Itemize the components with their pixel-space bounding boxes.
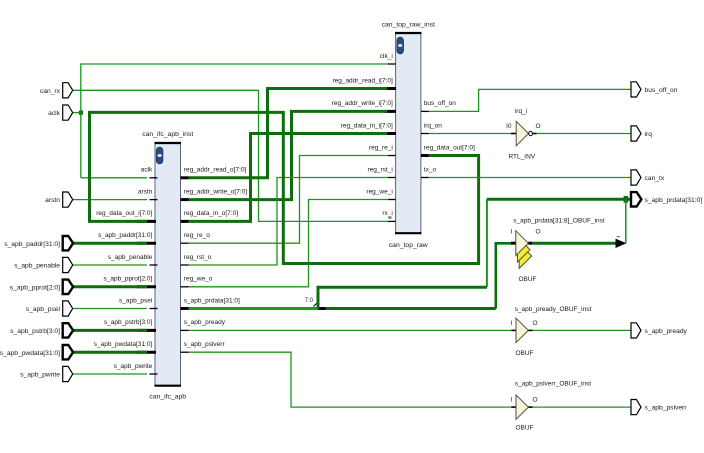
- input port aclk: [48, 105, 73, 120]
- svg-text:s_apb_paddr[31:0]: s_apb_paddr[31:0]: [4, 241, 60, 248]
- pin rx_i of can_top_raw_inst: [382, 210, 395, 221]
- svg-text:reg_addr_write_i[7:0]: reg_addr_write_i[7:0]: [332, 100, 393, 107]
- svg-text:can_top_raw_inst: can_top_raw_inst: [382, 22, 435, 29]
- output port bus_off_on: [631, 82, 678, 97]
- pin reg_we_i of can_top_raw_inst: [366, 188, 395, 199]
- pin s_apb_psel of can_ifc_apb_inst: [119, 297, 157, 308]
- svg-text:reg_addr_write_o[7:0]: reg_addr_write_o[7:0]: [184, 188, 247, 195]
- svg-text:reg_re_i: reg_re_i: [369, 144, 393, 151]
- svg-text:can_ifc_apb_inst: can_ifc_apb_inst: [142, 131, 193, 138]
- svg-text:reg_data_in_o[7:0]: reg_data_in_o[7:0]: [184, 210, 238, 217]
- svg-text:reg_we_o: reg_we_o: [184, 276, 213, 283]
- svg-text:I: I: [511, 397, 513, 404]
- pin reg_data_in_i[7:0] of can_top_raw_inst: [341, 122, 396, 133]
- wire net reg_data_in bus: [189, 134, 388, 222]
- svg-text:irq: irq: [645, 131, 653, 138]
- svg-text:s_apb_pslverr_OBUF_inst: s_apb_pslverr_OBUF_inst: [515, 381, 591, 388]
- svg-text:reg_rst_o: reg_rst_o: [184, 254, 212, 261]
- pin bus_off_on of can_top_raw_inst: [421, 100, 456, 111]
- input port s_apb_pstrb[3:0]: [10, 323, 73, 337]
- wire net s_apb_pwdata port to pin: [73, 351, 147, 354]
- svg-text:s_apb_pslverr: s_apb_pslverr: [645, 405, 688, 412]
- pin reg_addr_read_i[7:0] of can_top_raw_inst: [332, 77, 396, 88]
- pin reg_addr_write_o[7:0] of can_ifc_apb_inst: [181, 188, 248, 199]
- output port can_tx: [631, 170, 665, 185]
- wire net OBUF output to port line junction: [532, 199, 626, 248]
- svg-text:rx_i: rx_i: [382, 210, 392, 217]
- svg-text:s_apb_penable: s_apb_penable: [14, 263, 60, 270]
- input port s_apb_pwrite: [20, 366, 72, 381]
- svg-text:s_apb_pprot[2:0]: s_apb_pprot[2:0]: [104, 276, 153, 283]
- svg-text:reg_addr_read_o[7:0]: reg_addr_read_o[7:0]: [184, 167, 247, 174]
- svg-text:s_apb_penable: s_apb_penable: [108, 254, 153, 261]
- wire net aclk: port to clk_i and aclk pins: [73, 64, 388, 178]
- svg-text:s_apb_pprot[2:0]: s_apb_pprot[2:0]: [10, 284, 60, 291]
- svg-text:RTL_INV: RTL_INV: [508, 154, 535, 161]
- wire net reg_rst: [189, 178, 388, 266]
- svg-text:OBUF: OBUF: [515, 350, 533, 357]
- svg-text:reg_addr_read_i[7:0]: reg_addr_read_i[7:0]: [332, 77, 393, 84]
- wire net s_apb_prdata[31:8] slice branch: [318, 199, 487, 308]
- pin reg_rst_o of can_ifc_apb_inst: [181, 254, 212, 265]
- pin reg_re_i of can_top_raw_inst: [369, 144, 396, 155]
- svg-text:bus_off_on: bus_off_on: [645, 87, 678, 94]
- svg-text:O: O: [536, 229, 541, 236]
- svg-text:s_apb_pready_OBUF_inst: s_apb_pready_OBUF_inst: [515, 306, 592, 313]
- wire net irq_on: pin to RTL_INV input: [429, 133, 511, 135]
- svg-text:reg_data_out_i[7:0]: reg_data_out_i[7:0]: [96, 210, 152, 217]
- input port s_apb_pprot[2:0]: [10, 280, 73, 294]
- wire net s_apb_pstrb port to pin: [73, 329, 147, 332]
- svg-text:clk_i: clk_i: [380, 53, 393, 60]
- pin s_apb_pprot[2:0] of can_ifc_apb_inst: [104, 276, 156, 287]
- wire net reg_we: [189, 200, 388, 287]
- pin s_apb_pstrb[3:0] of can_ifc_apb_inst: [104, 319, 156, 330]
- svg-text:OBUF: OBUF: [518, 276, 536, 283]
- pin reg_data_out_i[7:0] of can_ifc_apb_inst: [96, 210, 156, 221]
- wire net reg_addr_read bus: [189, 89, 388, 178]
- wire net irq: RTL_INV output to irq port: [537, 133, 632, 135]
- input port s_apb_pwdata[31:0]: [0, 345, 73, 359]
- wire net reg_addr_write bus: [189, 111, 388, 199]
- svg-text:O: O: [533, 320, 538, 327]
- pin reg_we_o of can_ifc_apb_inst: [181, 276, 213, 287]
- input port s_apb_paddr[31:0]: [4, 236, 73, 250]
- svg-text:s_apb_pstrb[3:0]: s_apb_pstrb[3:0]: [104, 319, 153, 326]
- pin aclk of can_ifc_apb_inst: [141, 167, 158, 178]
- svg-text:7:0: 7:0: [305, 298, 314, 304]
- svg-text:s_apb_prdata[31:8]_OBUF_inst: s_apb_prdata[31:8]_OBUF_inst: [513, 218, 605, 225]
- svg-text:I: I: [511, 320, 513, 327]
- svg-text:OBUF: OBUF: [515, 425, 533, 432]
- output port s_apb_pslverr: [631, 400, 687, 415]
- svg-text:O: O: [533, 397, 538, 404]
- wire net arstn: port to arstn pin: [73, 199, 147, 201]
- output port s_apb_pready: [631, 323, 688, 338]
- svg-text:s_apb_pstrb[3:0]: s_apb_pstrb[3:0]: [10, 328, 60, 335]
- svg-text:can_tx: can_tx: [645, 175, 665, 182]
- svg-text:aclk: aclk: [48, 110, 61, 117]
- svg-text:s_apb_pready: s_apb_pready: [645, 328, 688, 335]
- output port s_apb_prdata[31:0]: [631, 192, 702, 206]
- wire net s_apb_penable port to pin: [73, 264, 147, 266]
- wire net s_apb_psel port to pin: [73, 308, 147, 310]
- pin clk_i of can_top_raw_inst: [380, 53, 396, 64]
- svg-text:reg_rst_i: reg_rst_i: [368, 166, 393, 173]
- svg-text:s_apb_pwrite: s_apb_pwrite: [114, 363, 153, 370]
- svg-text:s_apb_pwdata[31:0]: s_apb_pwdata[31:0]: [94, 341, 153, 348]
- svg-text:irq_i: irq_i: [515, 108, 527, 115]
- wire net reg_re: [189, 156, 388, 244]
- pin reg_rst_i of can_top_raw_inst: [368, 166, 396, 177]
- svg-text:tx_o: tx_o: [424, 166, 437, 173]
- buffer stack U4 s_apb_prdata[31:8]_OBUF_inst: [511, 218, 605, 284]
- svg-text:I: I: [511, 229, 513, 236]
- svg-text:aclk: aclk: [141, 167, 153, 174]
- module block U2 can_ifc_apb_inst: [142, 131, 193, 401]
- input port arstn: [45, 192, 73, 207]
- output port irq: [631, 126, 652, 141]
- wire net can_rx: port to rx_i: [73, 90, 388, 221]
- svg-text:can_rx: can_rx: [40, 88, 61, 95]
- svg-text:s_apb_prdata[31:0]: s_apb_prdata[31:0]: [184, 297, 240, 304]
- svg-text:O: O: [536, 123, 541, 130]
- svg-text:arstn: arstn: [138, 188, 153, 195]
- pin s_apb_prdata[31:0] of can_ifc_apb_inst: [181, 297, 241, 308]
- pin reg_data_out[7:0] of can_top_raw_inst: [421, 144, 475, 155]
- svg-text:s_apb_prdata[31:0]: s_apb_prdata[31:0]: [645, 197, 703, 204]
- svg-text:irq_on: irq_on: [424, 122, 442, 129]
- svg-text:reg_re_o: reg_re_o: [184, 232, 210, 239]
- input port can_rx: [40, 83, 73, 98]
- pin s_apb_pslverr of can_ifc_apb_inst: [181, 341, 226, 352]
- svg-text:can_top_raw: can_top_raw: [389, 242, 428, 249]
- svg-text:s_apb_pready: s_apb_pready: [184, 319, 226, 326]
- svg-text:s_apb_psel: s_apb_psel: [26, 306, 61, 313]
- pin reg_addr_write_i[7:0] of can_top_raw_inst: [332, 100, 396, 111]
- wire net s_apb_prdata port line: [487, 196, 631, 203]
- wire net bus_off_on: pin to port: [429, 89, 631, 111]
- tick mark near rx_i pin: [388, 217, 391, 218]
- svg-text:s_apb_pslverr: s_apb_pslverr: [184, 341, 226, 348]
- pin reg_re_o of can_ifc_apb_inst: [181, 232, 211, 243]
- svg-text:s_apb_pwrite: s_apb_pwrite: [20, 372, 60, 379]
- svg-text:reg_data_in_i[7:0]: reg_data_in_i[7:0]: [341, 122, 393, 129]
- svg-text:s_apb_paddr[31:0]: s_apb_paddr[31:0]: [98, 232, 152, 239]
- buffer U6 s_apb_pslverr_OBUF_inst: [511, 381, 592, 432]
- pin irq_on of can_top_raw_inst: [421, 122, 442, 133]
- pin s_apb_pwdata[31:0] of can_ifc_apb_inst: [94, 341, 156, 352]
- wire net OBUF input from prdata main line: [496, 243, 511, 308]
- input port s_apb_psel: [26, 301, 73, 316]
- svg-text:I0: I0: [506, 123, 512, 130]
- pin s_apb_penable of can_ifc_apb_inst: [108, 254, 158, 265]
- svg-text:arstn: arstn: [45, 197, 60, 204]
- svg-text:bus_off_on: bus_off_on: [424, 100, 456, 107]
- svg-text:can_ifc_apb: can_ifc_apb: [149, 394, 186, 401]
- pin s_apb_paddr[31:0] of can_ifc_apb_inst: [98, 232, 156, 243]
- pin arstn of can_ifc_apb_inst: [138, 188, 158, 199]
- svg-text:reg_we_i: reg_we_i: [366, 188, 392, 195]
- bus slice label 7:0: [305, 298, 318, 307]
- wire net s_apb_pprot port to pin: [73, 285, 147, 288]
- wire net s_apb_pready: pin to OBUF and port: [189, 329, 632, 331]
- wire net tx_o: pin to can_tx port: [429, 177, 631, 179]
- wire net s_apb_prdata main bus: [189, 307, 496, 310]
- svg-text:s_apb_pwdata[31:0]: s_apb_pwdata[31:0]: [0, 350, 60, 357]
- input port s_apb_penable: [14, 257, 72, 272]
- svg-text:s_apb_psel: s_apb_psel: [119, 297, 153, 304]
- wire net reg_data_out bus: can_top_raw to can_ifc_apb: [90, 112, 479, 263]
- svg-text:reg_data_out[7:0]: reg_data_out[7:0]: [424, 144, 475, 151]
- pin s_apb_pready of can_ifc_apb_inst: [181, 319, 226, 330]
- wire net s_apb_pslverr: pin to OBUF and port: [189, 352, 632, 407]
- pin s_apb_pwrite of can_ifc_apb_inst: [114, 363, 158, 374]
- buffer U5 s_apb_pready_OBUF_inst: [511, 306, 592, 357]
- module block U1 can_top_raw_inst: [382, 22, 435, 250]
- inverter RTL_INV U3: [506, 108, 540, 161]
- wire net s_apb_paddr port to pin: [73, 242, 147, 245]
- pin tx_o of can_top_raw_inst: [421, 166, 437, 177]
- pin reg_data_in_o[7:0] of can_ifc_apb_inst: [181, 210, 239, 221]
- wire net s_apb_pwrite port to pin: [73, 373, 147, 375]
- pin reg_addr_read_o[7:0] of can_ifc_apb_inst: [181, 167, 247, 178]
